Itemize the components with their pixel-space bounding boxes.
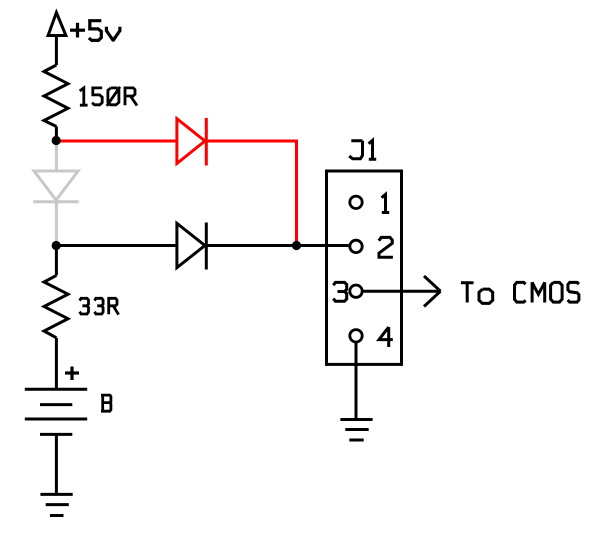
arrow head (to CMOS) xyxy=(424,276,441,307)
label J1 xyxy=(349,140,376,159)
battery + polarity mark xyxy=(65,367,79,381)
pin label 2 xyxy=(379,237,393,257)
wire diode D3 to J1 pin 2 xyxy=(206,244,350,247)
ground (right, J1 pin 4) xyxy=(340,420,372,441)
wire pin 4 to ground xyxy=(355,342,358,420)
wire pin 3 to arrow xyxy=(362,290,440,293)
pin 4 xyxy=(350,330,362,342)
wire node A to diode D2 (red) xyxy=(56,140,177,143)
wire R2 to battery xyxy=(55,338,58,389)
wire R1 to node A xyxy=(55,127,58,141)
pin label 3 xyxy=(333,282,346,301)
node A (junction dot) xyxy=(52,136,61,145)
connector J1 body xyxy=(327,171,402,364)
label +5v xyxy=(70,21,120,41)
pin 2 xyxy=(350,240,362,252)
label To CMOS xyxy=(461,282,579,303)
pin 3 xyxy=(350,285,362,297)
label 33R xyxy=(80,298,119,314)
wire LED D1 cathode to node C (grey) xyxy=(55,202,58,246)
pin label 4 xyxy=(379,327,393,347)
resistor R2 xyxy=(44,275,68,337)
node B (junction dot, red meets black) xyxy=(292,241,301,250)
ground (left) xyxy=(40,494,72,515)
label 150R xyxy=(80,87,137,106)
wire diode D2 cathode to node B (red) xyxy=(206,141,296,246)
resistor R1 xyxy=(44,65,68,127)
wire node A to LED D1 anode (grey) xyxy=(55,141,58,172)
battery B xyxy=(25,389,87,434)
wire node C down to R2 xyxy=(55,246,58,276)
pin 1 xyxy=(350,196,362,208)
power +5v arrow xyxy=(48,13,66,66)
diode D3 (black) xyxy=(177,223,206,270)
label B xyxy=(101,395,111,411)
pin label 1 xyxy=(382,194,390,212)
LED D1 (grey, pointing down) xyxy=(33,171,78,202)
node C (junction dot above R2) xyxy=(52,241,61,250)
wire node C to diode D3 xyxy=(56,244,177,247)
diode D2 (red) xyxy=(177,118,206,166)
wire battery to ground xyxy=(55,434,58,494)
